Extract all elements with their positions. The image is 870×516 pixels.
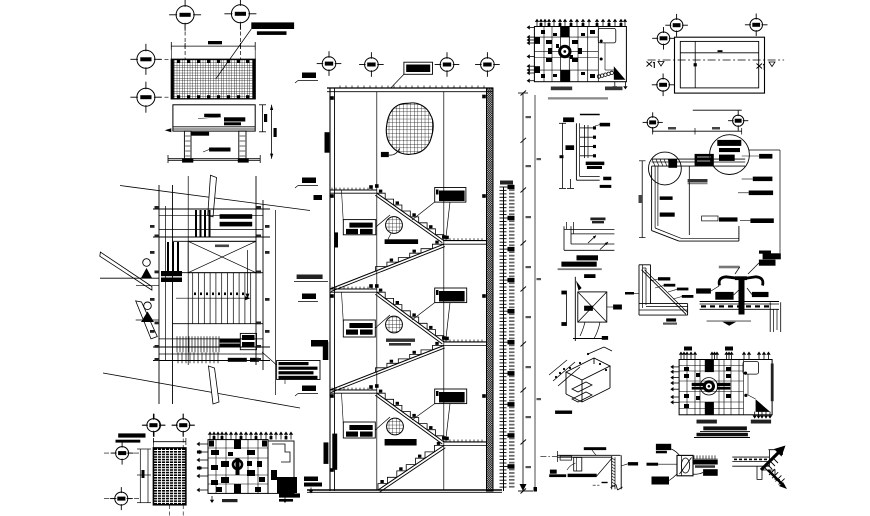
tank inner labels [688,179,708,183]
axis grid dashed drops from A1/A2 [184,25,186,59]
planta center ring [700,378,717,395]
pedestal black feet [182,158,193,162]
corner-det labels [658,277,670,280]
flight 1 down-right [377,193,444,240]
dimension far right (full height) [271,105,273,159]
planta right strip (vertical text) [771,364,774,402]
tee labels top [759,260,776,266]
anchorB top hatch [693,455,695,459]
axis circle A2 (top-left plan) [231,5,249,23]
floorA dashdot left [540,456,557,458]
floorA boxes [560,456,572,460]
floorA small marks [602,482,608,483]
tank axis circle U1 [647,117,658,128]
annotation far-left y177 [302,178,316,184]
rebar bars top band [195,210,197,237]
label box right story3 [435,389,467,404]
tank left labels [660,196,673,200]
anchorB box [677,455,693,475]
dash centerlines from Q circles [104,452,140,454]
break sliver (left horizontal) [100,252,152,290]
elbow black bar [577,255,599,260]
landing R1 [444,240,487,242]
xbrace baseline [573,338,608,340]
stair plan horizontals [153,208,270,210]
elbow gray base [558,268,602,270]
annotation baseline-left [304,477,318,482]
floorA right wall [611,456,613,489]
blob label square [381,152,389,157]
modulo-bl top arrows [209,435,211,440]
detail circle D3 [387,418,404,435]
label box right story2 [435,288,467,303]
label rows in section [224,117,245,121]
modulo-tr inner grid [543,27,545,82]
label 4-0 under plan [228,358,247,362]
planta left arrows [674,366,680,368]
planta top arrows [680,355,682,360]
dimension right of section [262,105,264,132]
wall black bar story1 [325,132,330,153]
xbrace left dim [566,291,568,326]
left wall of section [329,88,331,491]
label box left story1 [343,220,376,235]
annotation tick y195 [314,195,323,200]
cut line left with O flag [100,277,159,279]
tank right leader [749,149,780,151]
floor slab L2 [330,189,377,191]
corner-det slab [639,303,688,305]
top flange ticks on top floor [339,86,341,89]
centerline stub below pier [169,505,171,516]
wall black bars bottom [324,442,329,464]
x1-fig inner horizontal [680,52,758,54]
section top label box [404,62,433,74]
floor slab L4 [330,389,377,391]
x1-fig inner vertical [694,41,696,88]
dense hatched pier plan [153,448,186,505]
planta center columns [705,360,714,373]
axis circle Q4 [115,492,128,505]
slab section rectangle [173,105,255,131]
ladder-det dim line [561,123,563,188]
anchorB left tick [647,463,659,466]
anchorB bottom label [652,477,670,485]
axis circle S2 [365,58,379,72]
bottom base line [307,489,502,491]
tee base [707,320,751,322]
xbrace box [578,292,607,322]
xbrace diagonal mark [576,281,582,291]
dim lines bottom-left fig [139,449,141,503]
title bar (black) top-left figure [251,22,294,29]
tank right labels [742,155,759,157]
x1-fig dash-dot centerline [648,59,785,61]
axis circle S1 [322,57,336,71]
black detail box bottom-right of plan [240,333,256,349]
x1-fig inner rect [680,41,758,88]
flight 6 cross down-left [378,446,444,491]
break line diagonal (bottom) [103,373,300,408]
annotation far-left y72 [302,73,316,79]
xbrace right label [613,305,622,310]
axis circle P2 below plan [177,419,190,432]
landing R2 [444,341,487,343]
tank beam blob [695,154,714,166]
anchorB text block [693,460,718,465]
modulo-tr left arrows [530,26,535,28]
secondary long line [534,95,536,491]
arrowC slab [732,456,769,458]
planta bottom arrows [754,412,756,416]
break sliver (top) [208,175,217,217]
label box left story2 [343,320,375,337]
floorA black bars [550,470,557,474]
planta captions [697,420,717,424]
label DADO [209,148,230,152]
modulo-bl center column [234,440,241,449]
corner-det diagonal [642,270,687,315]
overall dimension line [522,93,524,491]
axis circle S3 [440,58,454,72]
interior column line 2 [443,92,445,490]
planta text blobs [692,383,706,386]
floorA top label [584,447,606,450]
arrowC lower diagonal [768,470,784,486]
isometric detail label [555,411,572,414]
modulo-bl left arrows [200,443,208,445]
arrowC step top [769,449,783,451]
break line diagonal (top) [120,186,310,211]
corner-det wall [638,265,640,315]
black cluster mid-left [161,271,182,276]
ladder-det mid blob [566,145,575,150]
elbow pipes [564,228,614,230]
axis circle S4 [481,58,495,72]
legend box right of plan [277,361,320,380]
modulo-bl center ring [233,460,242,469]
right hatched wall column [487,88,494,491]
planta title rows [703,426,747,430]
axis circle A1 (top-left plan) [176,6,194,24]
flag O-prime [141,312,154,323]
axis circle B1 (left of plan) [137,50,155,68]
stair treads (plan) [192,273,194,324]
tee stem [739,278,745,315]
axis circle B2 (left of plan) [137,88,155,106]
anchorB leader [671,449,679,455]
label below section-left [191,132,209,136]
leader from title to plan [216,29,252,79]
flight 5 down-right [377,393,444,442]
floor slab L3 [330,288,377,290]
annotation label y274 [297,275,323,280]
planta inner grid [686,360,688,415]
ladder-det lower bars [586,162,605,166]
elbow black platform [561,262,596,267]
ruler top header [500,181,513,185]
annotation far-left y385 [302,386,316,392]
label PASADOR bottom [220,339,241,343]
modulo-tr captions [551,87,572,91]
tank left wall [651,166,653,231]
planta small blobs [684,367,689,371]
modulo-tr top arrows [536,22,538,27]
modulo-bl outer rect [208,440,268,494]
elbow diagonal arrows [588,236,596,244]
hatched slab plan (grid reinforcement) [171,59,255,99]
arrowC notch [757,466,780,479]
modulo-bl bottom marks [279,493,300,497]
annotation far-left y293 [302,294,316,300]
modulo-tr gray scale bar [548,97,608,99]
tee top-right small label [759,251,771,254]
detail circle D3 label [385,439,417,446]
tank bubble left [649,152,682,185]
modulo-tr right room [598,28,616,43]
planta right room [743,362,759,375]
wall black bar story2 [334,232,338,247]
break sliver (left lower) [136,301,158,339]
ladder-det top-left blob [563,117,574,122]
ladder-det top line [580,114,600,116]
flight 3 down-right [377,292,444,342]
label box left story3 [343,422,375,438]
x1 mark right [757,64,763,69]
dimension line above plan [171,45,255,47]
isometric corner detail [566,358,610,380]
break sliver (bottom) [209,366,220,404]
VACIO void box with X [188,241,256,272]
floorA right label [628,462,638,465]
modulo-bl appendage [268,441,294,493]
detail circle D1 label [385,239,419,244]
section top floor line [327,87,493,89]
flight 2 cross down-left [330,244,444,289]
tank chamfer-bottom [652,231,679,242]
modulo-bl blobs [211,450,219,455]
interior column line 1 [376,92,378,490]
modulo-tr small blobs [546,40,552,44]
arrowC big arrow [761,452,779,470]
tee side labels [696,288,711,293]
landing R3 [444,441,487,443]
x1-fig axis circle T4 [657,79,670,92]
label TRABE in section [204,114,220,117]
elbow top label [590,218,605,221]
x1 mark left [647,62,653,67]
axis circle P1 below plan [148,419,161,432]
modulo-bl inner grid [215,440,217,494]
x1-fig axis circle T1 [670,19,683,32]
tank left dim [641,161,643,238]
bottom band comb ticks [176,336,178,352]
x1-fig outer rect [675,37,765,93]
tee right wall [769,302,771,332]
dimension arrow bottom [520,484,527,491]
label PASADOR top (2 rows) [220,214,253,219]
ladder-det bottom labels [603,177,611,181]
tank inner wall [688,166,690,235]
ladder-det main verticals [575,123,577,180]
planta outer rect [679,360,772,415]
modulo-tr bottom arrows [614,81,616,86]
xbrace mast [574,277,576,341]
anchorB right label [703,469,718,476]
modulo-tr center ring [560,46,570,56]
tank bubble right contents [717,140,741,146]
flag O [141,268,152,278]
ladder-det top-right label [600,123,610,127]
axis circle Q2 [177,419,190,432]
detail circle D2 label [386,339,415,342]
ground line under pedestal [168,158,260,160]
pedestal legs with hatch [184,131,191,159]
detail circle D1 [386,217,403,234]
tee slab [700,301,779,303]
ladder-det bottom run [576,179,599,181]
floorA inner leader [597,459,612,477]
tank top line [693,109,742,111]
flight 4 cross down-left [330,346,444,391]
label box right story1 [435,188,466,203]
ladder-det bottom tick [570,179,572,188]
tank top flange [652,158,746,160]
tee hooks [719,277,737,286]
modulo-tr outer rect [534,27,626,82]
x1-fig axis circle T3 [657,32,670,45]
rebar schedule ruler [503,187,505,491]
left pointer mark of section [165,128,172,132]
tank black square left [668,159,677,168]
x1-fig axis circle T2 [750,19,763,32]
axis circle Q1 [147,419,160,432]
wall black bar story3 [323,342,329,360]
detail circle D2 [386,316,403,333]
annotation tick y340 [311,340,328,347]
stair plan verticals [158,185,160,404]
modulo-tr center columns [561,27,570,38]
rebar bars left column [167,242,169,273]
tank bubble right [710,135,750,175]
floorA slab lines [557,454,620,456]
tiny edge labels on plan [155,206,160,209]
tank dim line [653,130,742,132]
axis circle Q3 [116,447,129,460]
hatched blob (masonry cloud) [386,103,433,154]
title bars bottom-left [118,433,145,437]
ladder-det rungs [584,125,586,158]
wall tick squares [330,96,334,100]
xbrace label [584,274,595,278]
anchorB big label [656,444,671,450]
tank axis circle U2 [733,115,744,126]
floorA leader [567,463,576,470]
